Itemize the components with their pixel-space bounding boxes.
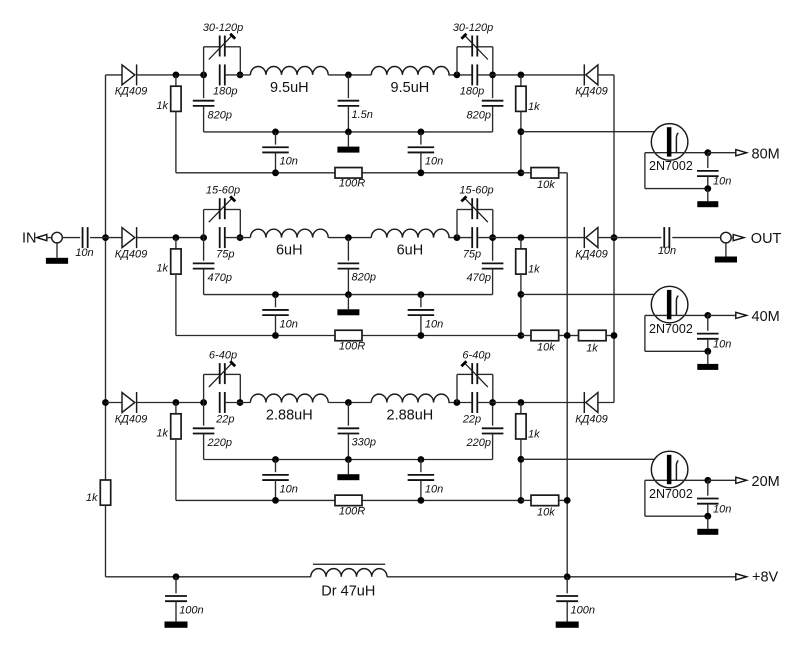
- svg-text:1k: 1k: [156, 100, 168, 112]
- svg-text:IN: IN: [22, 231, 37, 247]
- wire (row 2 bias rail): [176, 335, 521, 337]
- node (row 2 right): [489, 234, 496, 241]
- wire: [225, 74, 251, 76]
- capacitor 470p (row 2 left shunt): [193, 238, 232, 295]
- capacitor 10n (input coupling): [62, 227, 106, 259]
- node OUT tap: [611, 234, 618, 241]
- svg-text:820p: 820p: [208, 109, 232, 121]
- node (row 1 gate): [518, 128, 525, 135]
- svg-text:75p: 75p: [463, 248, 481, 260]
- wire: [137, 402, 204, 404]
- output diode bus: [613, 75, 615, 403]
- svg-text:Dr 47uH: Dr 47uH: [321, 584, 375, 600]
- svg-text:КД409: КД409: [575, 86, 608, 98]
- svg-text:6-40p: 6-40p: [209, 350, 237, 362]
- resistor 1k (row 1 left bias): [156, 75, 181, 173]
- resistor 1k (row 1 right bias): [516, 75, 540, 173]
- bias bus: [566, 173, 568, 577]
- wire: [448, 402, 472, 404]
- wire (row 3 bias rail): [176, 499, 521, 501]
- transistor Q3 2N7002 (row 3): [645, 451, 708, 501]
- capacitor 1.5n (row 1 center): [338, 75, 373, 132]
- svg-text:10n: 10n: [713, 338, 731, 350]
- node (row 1 input side): [173, 72, 180, 79]
- svg-text:10k: 10k: [537, 507, 555, 519]
- node +8V: [736, 570, 779, 586]
- wire: [598, 237, 614, 239]
- node (rail row 2): [418, 291, 425, 298]
- node IN terminal: [22, 231, 62, 247]
- resistor 1k (row 2 left bias): [156, 238, 181, 336]
- capacitor 820p (row 1 right shunt): [467, 75, 504, 132]
- svg-text:470p: 470p: [208, 272, 232, 284]
- node (row 1 source): [704, 185, 711, 192]
- svg-text:820p: 820p: [352, 272, 376, 284]
- node (row 3 gate): [518, 456, 525, 463]
- wire: [106, 402, 123, 404]
- transistor Q2 2N7002 (row 2): [645, 286, 708, 336]
- ground (row 2 source): [697, 351, 718, 370]
- svg-text:180p: 180p: [460, 86, 484, 98]
- node 20M output: [708, 474, 780, 490]
- svg-text:1k: 1k: [156, 428, 168, 440]
- wire (gate line row 1): [521, 131, 667, 133]
- svg-text:6uH: 6uH: [397, 243, 424, 259]
- node (row 3 center): [345, 399, 352, 406]
- node (row 2 source): [704, 348, 711, 355]
- resistor 1k (row 3 right bias): [516, 403, 540, 501]
- resistor 1k (supply feed): [86, 480, 111, 505]
- capacitor 75p (row 2 right series): [463, 227, 481, 260]
- svg-text:180p: 180p: [213, 86, 237, 98]
- resistor 1k (out bus bias): [567, 330, 614, 354]
- svg-text:10n: 10n: [713, 176, 731, 188]
- node (row 3 right trimmer left): [454, 399, 461, 406]
- node (row 2 right trimmer left): [454, 234, 461, 241]
- capacitor 10n (row 2 left bypass): [262, 295, 298, 336]
- inductor 6uH (row 2 right): [371, 229, 449, 258]
- svg-text:15-60p: 15-60p: [206, 185, 240, 197]
- capacitor 10n (row 1 left bypass): [262, 132, 298, 173]
- svg-text:30-120p: 30-120p: [453, 22, 493, 34]
- svg-text:100n: 100n: [179, 604, 203, 616]
- capacitor 470p (row 2 right shunt): [467, 238, 504, 295]
- node (rail row 1): [345, 129, 352, 136]
- capacitor 220p (row 3 left shunt): [193, 403, 232, 460]
- svg-text:1k: 1k: [156, 263, 168, 275]
- svg-text:10n: 10n: [425, 156, 443, 168]
- svg-text:9.5uH: 9.5uH: [391, 80, 430, 96]
- svg-text:1k: 1k: [528, 264, 540, 276]
- capacitor 10n (row 1 output): [697, 153, 731, 189]
- node (row 1 output side): [518, 72, 525, 79]
- ground (IN terminal): [46, 243, 68, 264]
- node (bias rail row 2): [518, 332, 525, 339]
- left input bus: [105, 75, 107, 480]
- capacitor 820p (row 1 left shunt): [193, 75, 232, 132]
- wire: [328, 74, 371, 76]
- node (row 3 drain): [704, 477, 711, 484]
- capacitor 10n (output coupling): [658, 227, 676, 257]
- svg-text:OUT: OUT: [751, 231, 782, 247]
- trimmer capacitor 15-60p (row 2 right): [457, 185, 494, 238]
- svg-text:6uH: 6uH: [276, 243, 303, 259]
- inductor 2.88uH (row 3 left): [250, 394, 328, 423]
- inductor 6uH (row 2 left): [250, 229, 328, 258]
- capacitor 100n (left supply bypass): [165, 577, 204, 622]
- transistor Q1 2N7002 (row 1): [645, 124, 708, 174]
- svg-text:10n: 10n: [280, 156, 298, 168]
- svg-text:2.88uH: 2.88uH: [387, 407, 434, 423]
- wire (source return row 1): [645, 153, 708, 189]
- wire (+8V rail): [106, 576, 311, 578]
- trimmer capacitor 6-40p (row 3 left): [204, 350, 241, 403]
- capacitor 10n (row 3 left bypass): [262, 460, 298, 501]
- wire (source return row 2): [645, 315, 708, 351]
- ground (OUT terminal): [715, 243, 737, 263]
- svg-text:10k: 10k: [537, 342, 555, 354]
- node (rail right bypass): [564, 573, 571, 580]
- wire: [477, 237, 584, 239]
- node (rail row 3): [418, 456, 425, 463]
- node (rail row 1): [272, 129, 279, 136]
- capacitor 10n (row 2 right bypass): [408, 295, 444, 336]
- ground (left supply bypass): [165, 622, 188, 628]
- svg-text:1k: 1k: [86, 492, 98, 504]
- node (bias rail row 1): [518, 169, 525, 176]
- trimmer capacitor 15-60p (row 2 left): [204, 185, 241, 238]
- wire: [106, 237, 123, 239]
- svg-text:10n: 10n: [75, 247, 93, 259]
- wire: [598, 402, 614, 404]
- svg-text:2N7002: 2N7002: [649, 322, 693, 336]
- resistor 1k (row 3 left bias): [156, 403, 181, 501]
- svg-text:80M: 80M: [752, 146, 780, 162]
- svg-text:220p: 220p: [466, 437, 491, 449]
- svg-text:20M: 20M: [752, 474, 780, 490]
- svg-text:75p: 75p: [216, 248, 234, 260]
- wire: [105, 505, 107, 577]
- node (bias rail row 2): [418, 332, 425, 339]
- diode VD3b KD409 (row 3 output): [575, 392, 608, 425]
- svg-text:22p: 22p: [215, 413, 234, 425]
- svg-text:10n: 10n: [280, 318, 298, 330]
- node (rail row 2): [272, 291, 279, 298]
- capacitor 100n (right supply bypass): [556, 577, 595, 622]
- node (rail row 3): [272, 456, 279, 463]
- wire: [225, 402, 251, 404]
- wire: [477, 402, 584, 404]
- node 80M output: [708, 146, 780, 162]
- diode VD3a KD409 (row 3 input): [115, 392, 148, 425]
- capacitor 820p (row 2 center): [338, 238, 376, 295]
- node (row 3 output side): [518, 399, 525, 406]
- svg-text:220p: 220p: [207, 437, 232, 449]
- node (rail row 1): [418, 129, 425, 136]
- svg-text:10n: 10n: [658, 245, 676, 257]
- node (row 1 trimmer right): [237, 72, 244, 79]
- svg-text:10n: 10n: [425, 483, 443, 495]
- capacitor 330p (row 3 center): [338, 403, 376, 460]
- svg-text:2N7002: 2N7002: [649, 159, 693, 173]
- wire: [137, 237, 204, 239]
- node (row 2 trimmer left): [200, 234, 207, 241]
- svg-text:330p: 330p: [352, 437, 376, 449]
- inductor 9.5uH (row 1 right): [371, 67, 449, 96]
- node (rail row 2): [345, 291, 352, 298]
- wire: [614, 237, 661, 239]
- svg-text:30-120p: 30-120p: [203, 22, 243, 34]
- wire: [448, 237, 472, 239]
- svg-text:22p: 22p: [462, 413, 481, 425]
- svg-text:100n: 100n: [571, 604, 595, 616]
- ground (right supply bypass): [556, 622, 579, 628]
- svg-text:+8V: +8V: [752, 570, 779, 586]
- ground (row 3 source): [697, 516, 718, 535]
- diode VD1a KD409 (row 1 input): [115, 64, 148, 97]
- svg-text:10n: 10n: [713, 503, 731, 515]
- svg-text:100R: 100R: [339, 505, 365, 517]
- node (input bus row 2): [102, 234, 109, 241]
- svg-text:КД409: КД409: [575, 248, 608, 260]
- wire: [328, 237, 371, 239]
- node (row 2 gate): [518, 291, 525, 298]
- svg-text:470p: 470p: [467, 272, 491, 284]
- capacitor 10n (row 3 right bypass): [408, 460, 444, 501]
- svg-text:КД409: КД409: [115, 248, 148, 260]
- wire: [225, 237, 251, 239]
- svg-text:2N7002: 2N7002: [649, 487, 693, 501]
- svg-text:100R: 100R: [339, 340, 365, 352]
- ground (row 1 center): [337, 132, 359, 153]
- svg-text:2.88uH: 2.88uH: [266, 407, 313, 423]
- node (bias rail row 3): [272, 497, 279, 504]
- capacitor 22p (row 3 left series): [215, 392, 234, 425]
- node (bias bus row 3): [564, 497, 571, 504]
- node (row 1 center): [345, 72, 352, 79]
- node (row 3 right): [489, 399, 496, 406]
- node (row 3 trimmer right): [237, 399, 244, 406]
- node (rail row 3): [345, 456, 352, 463]
- wire (gate line row 3): [521, 458, 667, 460]
- svg-text:1k: 1k: [528, 429, 540, 441]
- svg-text:10k: 10k: [537, 179, 555, 191]
- node (row 1 right trimmer left): [454, 72, 461, 79]
- capacitor 75p (row 2 left series): [216, 227, 234, 260]
- node (row 3 input side): [173, 399, 180, 406]
- node (row 2 trimmer right): [237, 234, 244, 241]
- node (row 2 drain): [704, 312, 711, 319]
- inductor 9.5uH (row 1 left): [250, 67, 328, 96]
- trimmer capacitor 6-40p (row 3 right): [457, 350, 493, 403]
- svg-text:9.5uH: 9.5uH: [270, 80, 309, 96]
- svg-text:15-60p: 15-60p: [459, 185, 493, 197]
- svg-text:КД409: КД409: [575, 413, 608, 425]
- capacitor 22p (row 3 right series): [462, 392, 481, 425]
- resistor 100R (row 1): [335, 168, 365, 190]
- resistor 10k (row 1): [521, 168, 567, 191]
- svg-text:100R: 100R: [339, 178, 365, 190]
- node (bias rail row 1): [272, 169, 279, 176]
- resistor 10k (row 3): [521, 495, 567, 518]
- wire (gate line row 2): [521, 293, 667, 295]
- diode VD2a KD409 (row 2 input): [115, 227, 148, 260]
- wire (row 1 bias rail): [176, 172, 521, 174]
- node (bias rail row 3): [518, 497, 525, 504]
- capacitor 180p (row 1 left series): [213, 64, 237, 97]
- capacitor 10n (row 1 right bypass): [408, 132, 444, 173]
- node (row 2 output side): [518, 234, 525, 241]
- svg-text:1.5n: 1.5n: [352, 109, 373, 121]
- ground (row 1 source): [697, 189, 718, 208]
- node (row 3 trimmer left): [200, 399, 207, 406]
- node (input bus row 3): [102, 399, 109, 406]
- wire: [106, 74, 123, 76]
- svg-text:КД409: КД409: [115, 86, 148, 98]
- svg-text:40M: 40M: [752, 309, 780, 325]
- svg-text:КД409: КД409: [115, 413, 148, 425]
- ground (row 2 center): [337, 295, 359, 316]
- wire: [448, 74, 472, 76]
- diode VD1b KD409 (row 1 output): [575, 64, 608, 97]
- ground (row 3 center): [337, 460, 359, 481]
- resistor 100R (row 3): [335, 495, 365, 517]
- node (bias bus to 1k): [564, 332, 571, 339]
- svg-text:1k: 1k: [586, 342, 598, 354]
- capacitor 180p (row 1 right series): [460, 64, 484, 97]
- trimmer capacitor 30-120p (row 1 left): [203, 22, 243, 75]
- wire (+8V rail): [387, 576, 736, 578]
- node (bias rail row 3): [418, 497, 425, 504]
- resistor 100R (row 2): [335, 330, 365, 352]
- wire (row 1 filter ground rail): [204, 131, 493, 133]
- node (row 2 input side): [173, 234, 180, 241]
- resistor 1k (row 2 right bias): [516, 238, 540, 336]
- wire (row 3 filter ground rail): [204, 459, 493, 461]
- capacitor 220p (row 3 right shunt): [466, 403, 504, 460]
- node (out bus to 1k): [611, 332, 618, 339]
- inductor Dr 47uH (supply choke): [311, 564, 387, 599]
- svg-text:10n: 10n: [280, 483, 298, 495]
- node (row 3 source): [704, 513, 711, 520]
- node (rail left bypass): [173, 573, 180, 580]
- diode VD2b KD409 (row 2 output): [575, 227, 608, 260]
- inductor 2.88uH (row 3 right): [371, 394, 449, 423]
- node (bias rail row 1): [418, 169, 425, 176]
- svg-text:6-40p: 6-40p: [462, 350, 490, 362]
- wire (row 2 filter ground rail): [204, 294, 493, 296]
- wire (source return row 3): [645, 480, 708, 516]
- node (row 1 right): [489, 72, 496, 79]
- wire: [328, 402, 371, 404]
- node (row 1 drain): [704, 149, 711, 156]
- node OUT terminal: [721, 231, 782, 247]
- wire: [477, 74, 584, 76]
- resistor 10k (row 2): [521, 330, 567, 353]
- wire: [137, 74, 204, 76]
- node (row 2 center): [345, 234, 352, 241]
- trimmer capacitor 30-120p (row 1 right): [453, 22, 493, 75]
- wire: [598, 74, 614, 76]
- capacitor 10n (row 3 output): [697, 480, 731, 516]
- wire: [672, 237, 721, 239]
- node 40M output: [708, 309, 780, 325]
- node (row 1 trimmer left): [200, 72, 207, 79]
- svg-text:10n: 10n: [425, 318, 443, 330]
- svg-text:1k: 1k: [528, 101, 540, 113]
- capacitor 10n (row 2 output): [697, 315, 731, 351]
- svg-text:820p: 820p: [467, 109, 491, 121]
- node (bias rail row 2): [272, 332, 279, 339]
